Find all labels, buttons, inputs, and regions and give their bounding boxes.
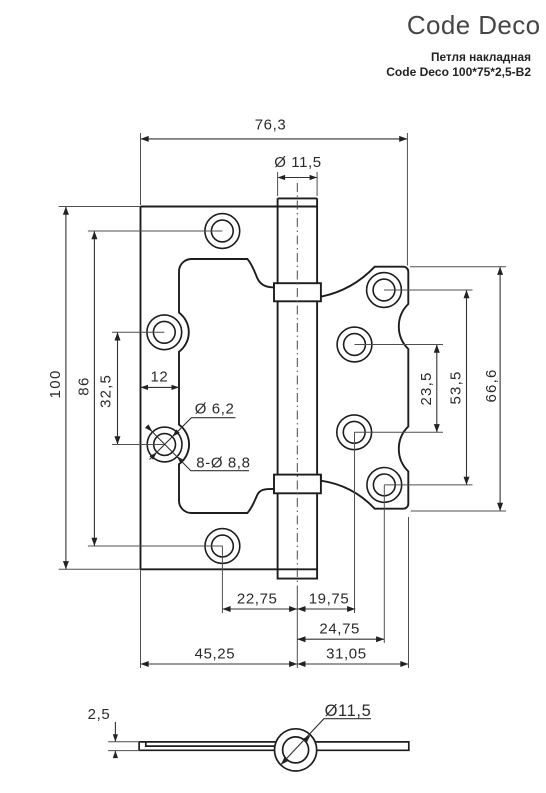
svg-text:Code Deco 100*75*2,5-B2: Code Deco 100*75*2,5-B2 [386,65,531,79]
svg-text:53,5: 53,5 [447,371,464,405]
svg-text:22,75: 22,75 [237,591,278,608]
svg-text:Code Deco: Code Deco [407,10,541,40]
svg-text:Ø 11,5: Ø 11,5 [274,154,322,171]
svg-text:45,25: 45,25 [195,646,236,663]
svg-text:12: 12 [150,369,168,386]
svg-text:24,75: 24,75 [319,621,360,638]
svg-text:Ø 6,2: Ø 6,2 [195,401,235,418]
svg-text:19,75: 19,75 [309,591,350,608]
svg-text:8-Ø 8,8: 8-Ø 8,8 [196,455,250,472]
svg-text:31,05: 31,05 [326,646,367,663]
svg-text:66,6: 66,6 [483,369,500,403]
svg-text:Петля накладная: Петля накладная [431,50,531,64]
svg-text:86: 86 [76,376,93,396]
svg-text:2,5: 2,5 [88,706,111,723]
svg-text:76,3: 76,3 [255,117,287,134]
svg-text:32,5: 32,5 [97,374,114,408]
svg-text:Ø11,5: Ø11,5 [325,702,372,720]
svg-text:100: 100 [47,369,64,398]
svg-text:23,5: 23,5 [418,372,435,406]
